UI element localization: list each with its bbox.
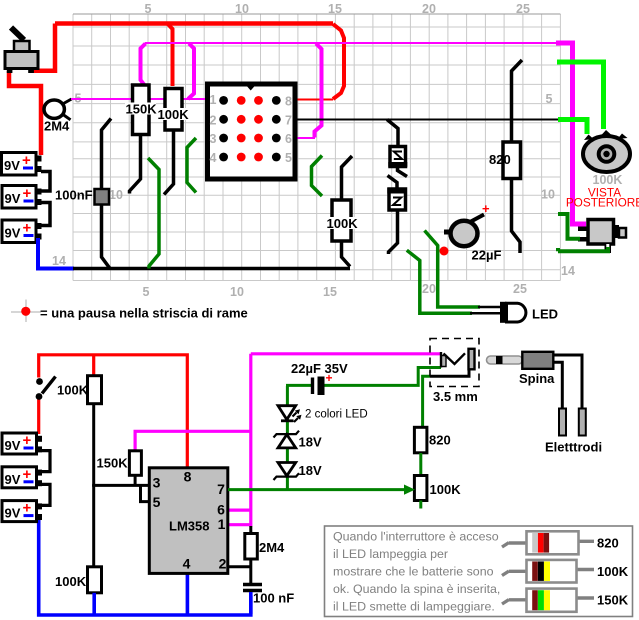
svg-text:10: 10 [230,285,244,299]
potentiometer wiper arrow [404,485,415,495]
electrode left [559,409,566,436]
svg-text:POSTERIORE: POSTERIORE [566,196,639,210]
wire: link B2- to B3+ [41,203,50,226]
zener D3 18V (schematic, down) [274,463,300,481]
wire: dark green jack sleeve down to 820 [423,376,430,427]
potentiometer 100K rear view body [583,136,630,172]
wire: red V+ rail (schematic) [39,355,188,468]
svg-text:100K: 100K [430,482,462,497]
svg-text:2: 2 [219,556,227,572]
wire: black jumper through 100nF [102,119,112,269]
jack socket sleeve return path [430,370,469,377]
svg-text:4: 4 [210,151,217,165]
svg-text:820: 820 [489,152,511,167]
resistor 2M4 (schematic) body [245,534,257,560]
wire: dark green to LED upper lead [425,231,481,308]
switch S1 (schematic) lever [42,377,56,394]
svg-text:1: 1 [218,516,226,532]
resistor 100K (layout middle) body [332,200,351,241]
svg-text:Eletttrodi: Eletttrodi [545,440,602,455]
LED leads (black) [470,307,500,313]
zener Z2 upper lead [388,176,398,190]
resistor 150K (layout) body [133,85,150,135]
toggle switch S1 lugs [7,69,13,74]
svg-text:+: + [482,201,490,216]
wire: magenta feed line (row2/3) [145,42,557,44]
battery B3 9V (top) [2,220,42,243]
capacitor 22uF (layout) left lead [444,230,452,235]
svg-text:5: 5 [546,92,553,106]
wire: link B2- B3+ (schematic) [42,484,50,505]
wire: dark green from right edge to jack middle pin [558,214,580,239]
battery B3 9V (schematic) [2,500,42,522]
IC footprint hole dots [219,96,280,161]
diode D1 2-colour LED (schematic) [278,406,302,422]
svg-text:LED: LED [532,307,558,322]
plug (Spina) body [522,352,553,369]
wire: black 150K bottom lead [134,475,137,485]
op-amp U1 pin labels [153,469,227,572]
wire: thin black strip pin7 to right edge [297,119,560,121]
IC footprint pin1 index notch [245,84,257,91]
wire: dark green cap right to jack return [325,368,442,386]
IC footprint box U1 (layout) [208,84,296,179]
svg-text:2 colori LED: 2 colori LED [305,409,368,421]
svg-text:ok. Quando la spina è inserita: ok. Quando la spina è inserita, [333,582,500,596]
wire: black ground bus row14 [73,267,350,271]
wire: dark green cap 22uF left [286,384,311,387]
svg-text:18V: 18V [299,435,322,450]
svg-text:150K: 150K [126,102,158,117]
toggle switch S1 lever [11,28,24,41]
svg-text:2M4: 2M4 [44,119,70,134]
label 100K (layout left) [157,107,190,122]
plug (Spina) shaft [487,356,523,364]
IC pin numbers (layout) [210,93,293,165]
stripboard grid [73,14,560,281]
wire: link B1- to B2+ [41,172,50,192]
red dot: copper strip break [440,247,449,256]
wire: green hook B [187,138,196,193]
wire: red branch from V+ bus down to 100K top [168,24,173,87]
svg-text:25: 25 [513,282,527,296]
svg-text:= una pausa nella striscia di: = una pausa nella striscia di rame [40,306,248,321]
wire: dark green pot bottom stub [419,501,422,509]
svg-text:150K: 150K [597,593,629,608]
wire: blue ground rail [39,520,251,615]
svg-text:+: + [23,432,32,449]
resistor 2M4 (schematic) top lead [249,526,252,534]
svg-text:150K: 150K [97,456,129,471]
wire: magenta riser to row5 strip [188,44,194,100]
svg-text:9V: 9V [5,226,21,241]
jack socket sleeve bar [469,349,475,370]
info box text [333,530,500,614]
svg-text:100K: 100K [55,574,87,589]
svg-text:mostrare che le batterie sono: mostrare che le batterie sono [333,565,494,579]
wire: plug to left electrode [553,362,562,409]
grid row labels right [541,92,575,278]
svg-text:8: 8 [285,95,292,109]
grid column labels bottom [143,282,527,299]
resistor 100K (schematic top) body [88,376,102,404]
svg-text:25: 25 [516,2,530,16]
wire: magenta strip row5 (pin1) [71,98,205,100]
svg-text:20: 20 [422,2,436,16]
wire: black 2M4 bottom to pin2 and cap [249,559,252,584]
resistor colour code 150K [502,589,629,612]
wire: dark green 820 to pot [419,453,422,476]
svg-text:Quando l'interruttore è acceso: Quando l'interruttore è acceso [333,530,499,544]
svg-text:5: 5 [145,2,152,16]
wire: red V+ bus (top row) [55,21,333,26]
wire: green hook A [148,158,159,269]
wire: dark green to LED lower lead [407,250,472,313]
trimmer 2M4 bottom lead [63,115,71,120]
info box border [325,526,633,617]
wire: magenta pin1 [228,523,251,526]
capacitor 22uF 35V (schematic) plates [313,377,325,396]
svg-text:22µF 35V: 22µF 35V [291,361,348,376]
resistor colour code 100K [502,560,629,583]
jack socket dashed outline [430,339,479,387]
zener Z2 (layout) body [387,188,407,210]
svg-text:3: 3 [210,132,217,146]
svg-text:100K: 100K [597,564,629,579]
svg-text:100K: 100K [327,216,359,231]
svg-text:6: 6 [285,132,292,146]
svg-text:9V: 9V [5,191,21,206]
wire: red hoop from V+ bus down to IC pin8 strip [333,24,344,99]
resistor 100K (layout middle) lower lead to bus [342,241,351,267]
svg-text:LM358: LM358 [169,519,209,534]
wire: plug to right electrode [553,355,582,409]
jack socket (layout) body [578,220,626,254]
battery B2 9V (schematic) [2,466,42,488]
resistor 820 (layout) body [503,142,521,179]
resistor 150K lower lead [130,135,141,194]
svg-text:3: 3 [153,475,161,491]
label 100K (layout middle) [326,216,359,231]
capacitor 100nF (schematic) plates [243,585,262,591]
wire: magenta riser to pin6 strip [315,44,322,138]
resistor 100K (schematic bottom) body [88,567,102,593]
zener Z1 lower lead (break) [398,167,408,177]
svg-text:14: 14 [52,254,66,268]
wire: red branch to 100K top [92,354,95,376]
jack socket tip contact [441,352,465,368]
wire: red from switch right lug up to V+ bus [31,24,55,71]
svg-text:7: 7 [217,481,225,497]
svg-text:100 nF: 100 nF [253,591,294,606]
wire: magenta riser to 150K top [141,44,146,85]
svg-text:5: 5 [153,494,161,510]
resistor colour code 820 [502,531,619,554]
svg-text:2M4: 2M4 [259,540,285,555]
svg-text:2: 2 [210,114,217,128]
switch S1 (schematic) contacts [36,378,43,385]
wire: bright green row6 to potentiometer left tab [558,120,587,135]
resistor 820 (schematic) body [414,427,427,453]
wire: black from 100K down to node [92,404,95,486]
svg-text:3.5 mm: 3.5 mm [433,389,478,404]
svg-text:15: 15 [323,285,337,299]
capacitor 22uF (layout) body [451,221,478,246]
svg-text:10: 10 [109,188,123,202]
zener Z2 lower lead [389,210,398,254]
potentiometer 100K (schematic) body [414,476,427,501]
svg-text:820: 820 [429,433,451,448]
op-amp U1 LM358 body [149,468,228,574]
svg-text:+: + [23,220,32,237]
svg-text:9V: 9V [5,472,21,487]
electrode right [579,409,586,436]
svg-text:8: 8 [184,469,192,485]
resistor 100K lower lead [164,130,174,195]
svg-text:9V: 9V [5,438,21,453]
svg-text:7: 7 [285,114,292,128]
wire: magenta pin6 [228,509,251,512]
wire: blue 100K bottom to ground rail [92,593,96,615]
svg-text:18V: 18V [299,463,322,478]
wire: black branch from pin7 strip down to zener Z1 [387,120,398,148]
wire: magenta top rail to jack tip [251,352,441,355]
wire: dark green from right edge to jack sleeve pin [558,247,608,251]
svg-text:10: 10 [235,2,249,16]
zener D2 18V (schematic, up) [274,431,300,448]
potentiometer shaft rings [599,146,615,162]
wire: blue cap to ground [249,592,253,614]
LED body (layout) [500,302,526,323]
svg-text:820: 820 [597,536,619,551]
resistor 150K (schematic) body [129,451,141,476]
wire: green hook C [312,156,323,197]
wire: bright green top to potentiometer [557,62,604,129]
svg-text:100K: 100K [158,107,190,122]
grid column labels top [145,2,530,16]
svg-text:5: 5 [143,285,150,299]
svg-text:100K: 100K [57,383,89,398]
resistor 820 (layout) lower lead [512,179,521,254]
wire: dark green pin7 output [228,488,409,491]
wire: magenta feedback net [135,354,251,527]
svg-text:22µF: 22µF [472,248,502,263]
svg-text:+: + [23,500,32,517]
zener Z1 (layout) body [388,147,407,167]
wire: thin magenta strip lead pin6 [297,137,315,139]
svg-text:4: 4 [183,556,191,572]
label VISTA POSTERIORE [566,186,639,210]
svg-text:100nF: 100nF [55,188,93,203]
wire: black stub pin5 [141,485,150,501]
wire: dark green LED/zener chain riser [286,386,289,490]
wire: red switch to battery [37,399,40,434]
svg-text:+: + [23,185,32,202]
capacitor 22uF (layout) plus lead [470,215,484,223]
battery B1 9V (schematic) [2,432,42,454]
svg-text:il LED lampeggia per: il LED lampeggia per [333,547,448,561]
svg-text:15: 15 [328,2,342,16]
svg-text:+: + [23,466,32,483]
resistor 100K (layout middle) upper lead [342,156,353,200]
resistor 100K (layout left) body [165,89,182,131]
wire: black node row to IC pin3 [92,484,149,487]
grid row labels left [52,92,123,269]
svg-text:1: 1 [210,93,217,107]
wire: red from switch left lug to battery + [9,71,41,155]
resistor 820 (layout) upper lead [512,60,523,142]
wire: blue IC pin4 to ground rail [186,573,190,615]
wire: black from node down to 100K bottom [92,485,95,567]
svg-text:10: 10 [541,188,555,202]
svg-text:9V: 9V [4,158,20,173]
potentiometer 100K rear view tabs [584,130,628,140]
svg-text:il LED smette di lampeggiare.: il LED smette di lampeggiare. [333,600,495,614]
svg-text:+: + [22,152,31,169]
trimmer 2M4 top lead [64,99,72,104]
toggle switch S1 body [5,52,38,69]
toggle switch S1 neck [14,41,30,52]
wire: blue from B3- to ground bus [38,238,74,269]
capacitor 100nF body [95,189,110,205]
label 150K (layout) [125,102,157,117]
wire: black pin2 to 2M4/cap node [228,565,251,568]
wire: magenta thick to right edge and down to jack [556,43,586,224]
svg-text:5: 5 [285,151,292,165]
svg-text:Spina: Spina [519,371,555,386]
wire: link B1- B2+ (schematic) [42,451,50,472]
battery B2 9V (top) [2,185,42,208]
svg-text:9V: 9V [5,506,21,521]
trimmer 2M4 body [44,100,64,118]
battery B1 9V (top) [2,152,42,175]
wire: thin red strip lead pin8 [297,99,333,101]
svg-text:20: 20 [422,282,436,296]
legend: strip break symbol [11,300,41,323]
svg-text:14: 14 [561,264,575,278]
